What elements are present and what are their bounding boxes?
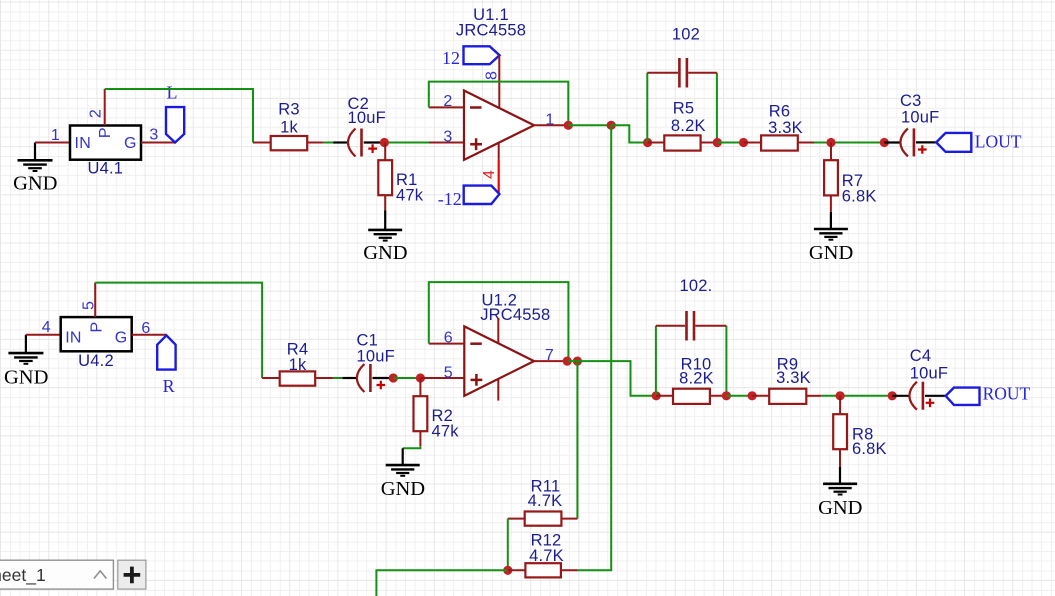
net flag L — [166, 83, 184, 143]
junction node before C4 — [888, 391, 897, 400]
long vertical wire node B to R12 — [578, 125, 612, 570]
pin 6 stub (U1.2) — [429, 343, 465, 345]
ground GND4 (U4.2 pin 4) — [4, 335, 48, 389]
junction node after R10 — [722, 391, 731, 400]
resistor R7 — [824, 143, 876, 212]
net flag ROUT — [946, 384, 1031, 405]
wire R1 to GND2 (black) — [384, 211, 386, 230]
svg-text:GND: GND — [809, 242, 853, 264]
feedback capacitor 102. branch wires — [655, 326, 657, 396]
wire output A to B — [568, 124, 611, 126]
svg-text:8.2K: 8.2K — [679, 370, 714, 388]
junction node R8 tap — [836, 391, 845, 400]
svg-text:10uF: 10uF — [348, 109, 386, 127]
svg-text:12: 12 — [442, 48, 460, 68]
pin 5 stub (U4.2) — [94, 283, 96, 318]
svg-text:8.2K: 8.2K — [671, 117, 706, 135]
capacitor C4 — [909, 347, 948, 410]
wire segment (black) into C1 — [342, 377, 358, 379]
wire output to lower band — [568, 361, 656, 396]
connector U4.2 — [61, 317, 132, 370]
svg-text:4: 4 — [42, 319, 51, 336]
svg-text:3: 3 — [149, 127, 158, 144]
wire R12 junction to bottom edge — [376, 570, 507, 596]
junction node C2/R1 — [380, 138, 389, 147]
capacitor 102. — [656, 277, 727, 341]
junction node R12 left — [503, 566, 512, 575]
svg-text:R6: R6 — [769, 103, 791, 121]
svg-text:IN: IN — [75, 135, 92, 152]
op-amp U1.2 labels — [480, 291, 550, 324]
junction node lower band left — [652, 391, 661, 400]
wire R5 to R6 — [717, 142, 743, 144]
svg-text:2: 2 — [87, 109, 104, 118]
junction node mid lower band — [748, 391, 757, 400]
svg-text:R: R — [163, 376, 175, 396]
pin 2 stub (U1.1) — [429, 106, 465, 108]
svg-text:GND: GND — [363, 242, 407, 264]
wire C2 junction to U1.1 pin 3 — [389, 142, 430, 144]
svg-text:4.7K: 4.7K — [529, 547, 564, 565]
pin 3 stub (U1.1) — [429, 142, 465, 144]
svg-text:5: 5 — [444, 364, 453, 381]
svg-text:JRC4558: JRC4558 — [456, 21, 526, 39]
svg-text:R3: R3 — [278, 101, 300, 119]
capacitor 102 — [647, 26, 717, 88]
svg-text:47k: 47k — [432, 423, 460, 441]
ground GND1 (U4.1 pin 1) — [13, 143, 57, 195]
pin 3 wire (U4.1 to L flag) — [141, 142, 175, 144]
svg-text:102: 102 — [672, 26, 700, 44]
wire segment (black) into C2 — [333, 141, 349, 143]
output pin 7 wire (U1.2) — [534, 360, 564, 362]
svg-text:6.8K: 6.8K — [842, 188, 877, 206]
svg-text:3.3K: 3.3K — [768, 119, 803, 137]
wire into C3 (black) — [884, 141, 901, 143]
svg-text:GND: GND — [13, 173, 57, 195]
svg-text:Sheet_1: Sheet_1 — [0, 565, 46, 586]
svg-text:LOUT: LOUT — [975, 131, 1022, 151]
wire 12 flag to U1.1 pin 8 — [498, 55, 500, 107]
svg-text:GND: GND — [381, 478, 425, 500]
svg-text:L: L — [167, 83, 178, 103]
feedback capacitor 102 branch wires — [646, 73, 648, 143]
resistor R11 — [508, 477, 578, 525]
capacitor C1 — [357, 332, 395, 392]
feedback wire U1.2 (pin6 to output) — [429, 282, 569, 361]
svg-text:U4.1: U4.1 — [87, 160, 123, 178]
wire R9 to C4 — [821, 395, 892, 397]
svg-text:G: G — [115, 329, 128, 346]
wire R7 to GND3 (black) — [830, 212, 832, 229]
svg-text:ROUT: ROUT — [983, 384, 1031, 404]
wire junction to U1.2 pin 5 — [420, 377, 464, 379]
wire R8 to GND6 (black) — [839, 467, 841, 483]
ground GND6 (below R8) — [818, 484, 862, 519]
pin 6 wire (U4.2 to R flag) — [132, 334, 167, 336]
svg-text:4: 4 — [481, 170, 498, 179]
svg-text:R5: R5 — [673, 100, 695, 118]
pin 8 stub (U1.2) — [497, 318, 499, 344]
svg-text:C4: C4 — [910, 347, 932, 365]
wire output B to top band — [611, 125, 647, 142]
svg-text:4.7K: 4.7K — [528, 492, 563, 510]
capacitor C2 — [348, 95, 386, 157]
svg-text:GND: GND — [818, 497, 862, 519]
wire R10 to R9 — [726, 395, 752, 397]
resistor R4 — [262, 341, 333, 386]
svg-text:GND: GND — [4, 366, 48, 388]
svg-text:6: 6 — [444, 329, 453, 346]
junction node R7 tap — [826, 138, 835, 147]
wire C1 to R2 junction — [393, 377, 420, 379]
resistor R9 — [752, 355, 821, 404]
svg-text:1k: 1k — [280, 119, 298, 137]
wire U4.1 pin2 to R3 (node L_IN) — [105, 89, 253, 143]
junction node before C3 — [880, 138, 889, 147]
resistor R2 — [414, 378, 460, 446]
svg-text:102.: 102. — [680, 277, 713, 295]
resistor R5 — [648, 100, 718, 151]
net flag R — [157, 335, 175, 395]
wire U4.2 pin5 to R4 (node R_IN) — [95, 283, 262, 378]
resistor R3 — [253, 101, 323, 151]
wire R2 to GND5 (green jog) — [403, 446, 421, 448]
junction node U1.2 output C — [563, 357, 572, 366]
svg-text:G: G — [124, 135, 137, 152]
svg-text:10uF: 10uF — [357, 347, 395, 365]
op-amp U1.1 triangle — [464, 91, 534, 160]
ground GND2 (below R1) — [363, 230, 407, 264]
capacitor C3 — [900, 92, 939, 156]
junction node top band left — [643, 138, 652, 147]
ground GND3 (below R7) — [809, 229, 853, 264]
svg-text:10uF: 10uF — [901, 108, 939, 126]
wire U4.2 pin 4 to GND — [26, 334, 61, 336]
junction node D (R11 tap) — [573, 357, 582, 366]
svg-text:1: 1 — [51, 127, 60, 144]
resistor R6 — [744, 103, 815, 151]
svg-text:6: 6 — [141, 320, 150, 337]
svg-text:P: P — [97, 127, 114, 138]
feedback wire U1.1 (pin2 to output) — [429, 82, 569, 122]
op-amp U1.2 triangle — [464, 326, 534, 395]
svg-text:3.3K: 3.3K — [776, 369, 811, 387]
resistor R10 — [656, 355, 726, 404]
junction node B — [607, 121, 616, 130]
ground GND5 (below R2) — [381, 465, 425, 500]
junction node mid top band — [739, 138, 748, 147]
svg-text:3: 3 — [443, 129, 452, 146]
output pin 1 wire (U1.1) — [534, 124, 565, 126]
svg-text:1k: 1k — [289, 356, 307, 374]
power flag -12 (V-) — [438, 186, 500, 210]
pin 4 stub (U1.1, dark) — [498, 143, 500, 160]
junction node U1.1 output A — [564, 121, 573, 130]
wire R3 to C2 — [323, 142, 333, 144]
resistor R8 — [833, 396, 887, 467]
wire R2 to GND5 (black) — [402, 448, 404, 464]
junction node C1/R2 — [416, 373, 425, 382]
wire R11 left down to R12 junction — [507, 519, 509, 571]
power flag 12 (V+) — [442, 46, 500, 68]
svg-text:U4.2: U4.2 — [78, 352, 114, 370]
wire R6 to C3 — [814, 142, 884, 144]
svg-text:2: 2 — [443, 93, 452, 110]
svg-text:47k: 47k — [396, 187, 424, 205]
junction node after R5 — [713, 138, 722, 147]
wire U1.1 pin 4 to -12 flag (red) — [498, 160, 500, 194]
svg-text:-12: -12 — [438, 189, 462, 209]
wire into C4 (black) — [892, 395, 910, 397]
svg-text:JRC4558: JRC4558 — [480, 306, 550, 324]
svg-text:10uF: 10uF — [910, 365, 948, 383]
pin 4 stub (U1.2) — [497, 379, 499, 401]
wire node D down to R11 — [576, 361, 578, 518]
svg-text:P: P — [88, 322, 105, 333]
wire U4.1 pin 1 to GND — [35, 142, 70, 144]
sheet tab bar — [0, 560, 113, 589]
net flag LOUT — [936, 131, 1022, 151]
op-amp U1.1 labels — [456, 6, 526, 39]
svg-text:8: 8 — [484, 71, 501, 80]
junction node after C1 — [389, 373, 398, 382]
svg-text:7: 7 — [545, 347, 554, 364]
resistor R12 — [508, 531, 578, 577]
resistor R1 — [378, 143, 423, 211]
wire R4 to C1 — [333, 377, 342, 379]
add sheet button — [118, 560, 146, 589]
pin 2 stub (U4.1) — [104, 89, 106, 126]
svg-text:IN: IN — [65, 329, 82, 346]
connector U4.1 — [70, 126, 141, 178]
svg-text:5: 5 — [80, 301, 97, 310]
svg-text:6.8K: 6.8K — [852, 440, 887, 458]
svg-text:1: 1 — [545, 112, 554, 129]
